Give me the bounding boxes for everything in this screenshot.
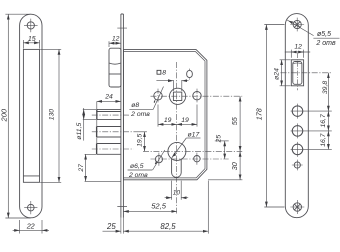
latch window <box>291 60 303 86</box>
svg-text:55: 55 <box>230 116 239 125</box>
svg-text:27: 27 <box>78 164 85 173</box>
deadbolt hole 1 <box>291 104 332 119</box>
svg-text:15: 15 <box>28 36 36 43</box>
dimension 27 (rod to body bottom) <box>78 154 121 181</box>
body vertical centerline <box>176 62 178 214</box>
svg-text:ø11,5: ø11,5 <box>76 123 83 140</box>
svg-text:16,7: 16,7 <box>320 133 327 146</box>
dimension 25 bottom <box>103 222 122 231</box>
dimension 178 <box>255 25 285 208</box>
label ø17 with leader <box>172 131 201 158</box>
faceplate edge strip <box>121 14 124 218</box>
hub hole right ø8 <box>193 89 201 104</box>
dimension 200 <box>0 14 31 218</box>
euro cylinder hole ø17 <box>168 142 186 177</box>
svg-text:2 отв: 2 отв <box>128 172 148 179</box>
dimension 52,5 <box>123 202 176 212</box>
dimension 39,8 <box>322 73 329 111</box>
svg-text:ø5,5: ø5,5 <box>317 31 331 38</box>
front faceplate outline <box>285 14 308 218</box>
left plate recess rectangle <box>23 49 39 182</box>
faceplate strip extension lines to bottom dims <box>121 218 124 234</box>
dimension 19,5 <box>134 132 147 152</box>
spindle hole with square 8 follower <box>170 88 186 104</box>
label ø5,5 2 отв with leader <box>287 20 340 47</box>
dimension ø11,5 (rod diameter) <box>76 108 96 141</box>
svg-text:2 отв: 2 отв <box>130 111 150 118</box>
svg-text:22: 22 <box>26 221 35 230</box>
left plate bottom screw hole <box>24 201 37 214</box>
svg-text:82,5: 82,5 <box>160 222 176 231</box>
svg-text:130: 130 <box>49 109 56 121</box>
deadbolt hole 2 <box>291 123 332 138</box>
front faceplate top screw hole <box>290 18 304 32</box>
cylinder horizontal centerline <box>143 150 242 152</box>
svg-text:ø24: ø24 <box>274 68 281 80</box>
svg-text:ø8: ø8 <box>131 102 139 109</box>
dimension 25 right <box>215 135 229 159</box>
upper holes horizontal centerline <box>151 95 243 97</box>
svg-text:178: 178 <box>255 108 264 120</box>
svg-text:24: 24 <box>104 94 113 101</box>
fixing hole left ø6,5 <box>155 153 162 166</box>
svg-text:ø17: ø17 <box>188 131 200 138</box>
dimension 10 (cylinder stem) <box>165 181 189 200</box>
dimension 130 <box>40 49 61 182</box>
deadbolt rod 1 <box>92 109 129 119</box>
dimension 22 <box>13 220 49 234</box>
fixing hole right ø6,5 <box>194 153 200 165</box>
deadbolt rod 3 <box>92 144 134 155</box>
bottom screw hole <box>290 200 304 214</box>
svg-text:19: 19 <box>181 117 189 124</box>
left plate recess step line <box>23 175 39 177</box>
hub hole left ø8 <box>154 89 162 104</box>
dimension 19 19 <box>158 105 197 127</box>
svg-text:12: 12 <box>294 44 302 51</box>
dimension 12 (latch) <box>109 36 121 47</box>
svg-text:200: 200 <box>0 108 8 122</box>
label ø8 2 отв with leader <box>129 87 163 119</box>
svg-text:16,7: 16,7 <box>320 114 327 127</box>
dimension 30 <box>208 151 242 179</box>
svg-text:25: 25 <box>106 222 116 231</box>
svg-text:12: 12 <box>112 36 120 43</box>
middle fixing hole <box>292 160 303 171</box>
dimension 15 <box>23 36 39 49</box>
dimension 12 (latch window) <box>285 44 310 58</box>
svg-text:19,5: 19,5 <box>136 133 143 146</box>
dimension 16,7 lower <box>320 131 329 150</box>
svg-text:10: 10 <box>173 189 181 196</box>
svg-text:25: 25 <box>215 135 222 144</box>
lower holes horizontal centerline <box>151 158 229 160</box>
oval slot <box>187 69 193 80</box>
left plate top screw hole <box>24 19 38 33</box>
svg-text:ø6,5: ø6,5 <box>130 163 144 170</box>
svg-text:39,8: 39,8 <box>322 81 329 94</box>
left strike plate outline <box>20 14 42 218</box>
dimension square 8 <box>156 69 188 91</box>
dimension ø24 <box>274 60 291 86</box>
dimension 24 (deadbolt throw) <box>97 94 121 155</box>
svg-text:19: 19 <box>164 117 172 124</box>
label ø6,5 2 отв with leader <box>128 150 165 179</box>
deadbolt hole 3 <box>291 142 332 157</box>
lock body outline <box>124 50 207 180</box>
svg-text:2 отв: 2 отв <box>315 40 336 47</box>
latch window centerlines <box>281 53 332 90</box>
dimension 82,5 <box>123 181 208 234</box>
svg-text:30: 30 <box>230 162 239 170</box>
dimension 55 <box>230 96 240 151</box>
svg-text:8: 8 <box>162 69 166 76</box>
svg-text:52,5: 52,5 <box>151 202 167 211</box>
faceplate screw position ticks <box>117 28 127 206</box>
latch bolt (edge view) <box>109 48 121 87</box>
dimension 16,7 upper <box>320 111 329 131</box>
deadbolt rod 2 <box>92 127 134 138</box>
